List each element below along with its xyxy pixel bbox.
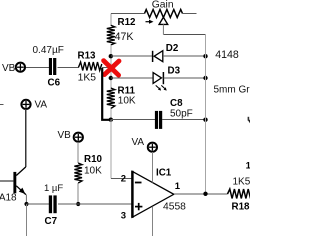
wire R12 top lead to pot left	[111, 14, 145, 26]
svg-text:D3: D3	[168, 65, 181, 76]
wire stub left edge	[0, 104, 4, 106]
wire pot right terminal	[183, 13, 197, 15]
node VB input symbol	[16, 63, 25, 72]
svg-text:VA: VA	[132, 137, 145, 148]
wire C8 to bus	[162, 119, 205, 121]
wire D2 row left	[111, 55, 152, 57]
net label VA	[35, 100, 48, 111]
value 47K	[115, 31, 134, 43]
wire op-amp bottom to edge	[151, 207, 153, 237]
diode D3 (LED)	[153, 72, 163, 84]
wire main vertical node R12 to R11	[110, 45, 112, 88]
label R18	[232, 202, 251, 213]
label C7	[45, 216, 58, 227]
value 1K5	[78, 73, 97, 84]
svg-text:IC1: IC1	[156, 168, 172, 179]
node VA symbol above op-amp	[148, 143, 157, 152]
edge mark right upper	[246, 160, 252, 171]
svg-text:C8: C8	[170, 98, 183, 109]
value 4558	[163, 201, 186, 212]
value 1uF	[44, 183, 63, 194]
wire D3 to bus	[163, 77, 205, 79]
resistor R10	[74, 163, 82, 183]
resistor R12	[107, 25, 115, 45]
junction dot D2 row left	[109, 54, 113, 58]
svg-text:1K5: 1K5	[78, 73, 97, 84]
label D2	[166, 43, 179, 54]
wire D3 row left	[111, 77, 153, 79]
net label VA	[132, 137, 145, 148]
svg-text:R10: R10	[84, 154, 103, 165]
diode D2	[153, 51, 163, 62]
svg-text:0.47µF: 0.47µF	[33, 45, 64, 56]
svg-text:50pF: 50pF	[170, 109, 193, 120]
svg-text:R13: R13	[78, 51, 97, 62]
label R10	[84, 154, 103, 165]
svg-text:A18: A18	[0, 193, 17, 204]
wire R13 to vertical node (crossed out)	[102, 67, 111, 69]
svg-text:47K: 47K	[115, 31, 134, 43]
svg-text:VB: VB	[58, 130, 72, 141]
svg-text:3: 3	[121, 210, 126, 221]
value 50pF	[170, 109, 193, 120]
svg-text:VA: VA	[35, 100, 48, 111]
svg-text:Gain: Gain	[152, 0, 174, 10]
svg-text:R18: R18	[232, 202, 251, 213]
capacitor C7	[49, 195, 57, 213]
svg-text:10K: 10K	[84, 166, 102, 177]
svg-text:10K: 10K	[118, 96, 136, 107]
label C8	[170, 98, 183, 109]
junction dot C8 row bus	[203, 118, 207, 122]
wire emitter node to C7	[26, 203, 49, 205]
wire VB down to R10	[77, 142, 79, 163]
junction dot D2 row bus	[203, 54, 207, 58]
value 10K	[84, 166, 102, 177]
value 1K5	[233, 177, 251, 188]
wire C7 to pin 3	[58, 203, 132, 205]
wire output pin1 to bus	[174, 193, 228, 195]
wire VB input to C6	[25, 67, 49, 69]
svg-text:5mm Gre: 5mm Gre	[214, 85, 251, 96]
junction dot R10 bottom	[76, 202, 80, 206]
pot adjustment arrow	[146, 20, 154, 24]
label C6	[48, 78, 61, 89]
value 4148	[215, 49, 239, 61]
svg-text:4148: 4148	[215, 49, 239, 61]
svg-text:1 µF: 1 µF	[44, 183, 63, 194]
label A18	[0, 193, 17, 204]
wire R11 bottom to C8 junction	[110, 109, 112, 120]
svg-text:2: 2	[121, 173, 126, 184]
pin 1 label	[175, 181, 181, 192]
label R11	[118, 86, 136, 97]
svg-text:D2: D2	[166, 43, 179, 54]
wire emitter node down to edge	[25, 204, 27, 236]
value 5mm Green	[214, 85, 256, 96]
wire R10 bottom to pin3 row	[77, 183, 79, 204]
label R12	[118, 17, 137, 28]
wire C8 row left	[111, 119, 156, 121]
junction dot output bus	[203, 192, 207, 196]
edge mark right middle	[248, 117, 250, 123]
capacitor C8	[155, 111, 162, 129]
capacitor C6	[49, 58, 56, 75]
junction dot emitter node	[24, 202, 28, 206]
value 10K	[118, 96, 136, 107]
potentiometer Gain	[145, 10, 183, 35]
wire VA down to transistor collector	[25, 109, 27, 167]
net label VB	[58, 130, 72, 141]
label D3	[168, 65, 181, 76]
label IC1	[156, 168, 172, 179]
svg-text:1K5: 1K5	[233, 177, 251, 188]
svg-text:R12: R12	[118, 17, 137, 28]
junction dot D3 row bus	[203, 76, 207, 80]
svg-text:1: 1	[246, 160, 250, 171]
value 0.47uF	[33, 45, 64, 56]
op-amp U1 triangle	[132, 171, 174, 218]
svg-text:C6: C6	[48, 78, 61, 89]
svg-text:4558: 4558	[163, 201, 186, 212]
junction dot C8 row left	[109, 118, 113, 122]
wire pot wiper down to bus	[163, 25, 205, 35]
wire VA to op-amp top	[151, 152, 153, 183]
net label VB	[2, 63, 16, 74]
wire D2 to bus	[163, 55, 206, 57]
svg-text:C7: C7	[45, 216, 58, 227]
annotation red X over R13 junction	[104, 61, 119, 76]
label R13	[78, 51, 97, 62]
transistor Q1	[0, 167, 26, 204]
wire junction down to pin 2	[111, 120, 132, 179]
resistor R18	[228, 189, 251, 199]
node VB symbol above R10	[74, 133, 83, 142]
label Gain	[152, 0, 174, 10]
junction dot D3 row left	[109, 76, 113, 80]
resistor R11	[107, 88, 115, 109]
wire C6 to R13	[58, 67, 80, 69]
svg-text:1: 1	[175, 181, 181, 192]
svg-text:VB: VB	[2, 63, 16, 74]
node VA symbol left	[21, 100, 30, 109]
annotation thick reroute wire R13 to C8 junction	[102, 68, 110, 120]
pin 2 label	[121, 173, 126, 184]
pin 3 label	[121, 210, 126, 221]
wire right bus vertical	[205, 35, 207, 194]
LED arrows of D3	[156, 85, 167, 90]
resistor R13	[79, 62, 102, 71]
